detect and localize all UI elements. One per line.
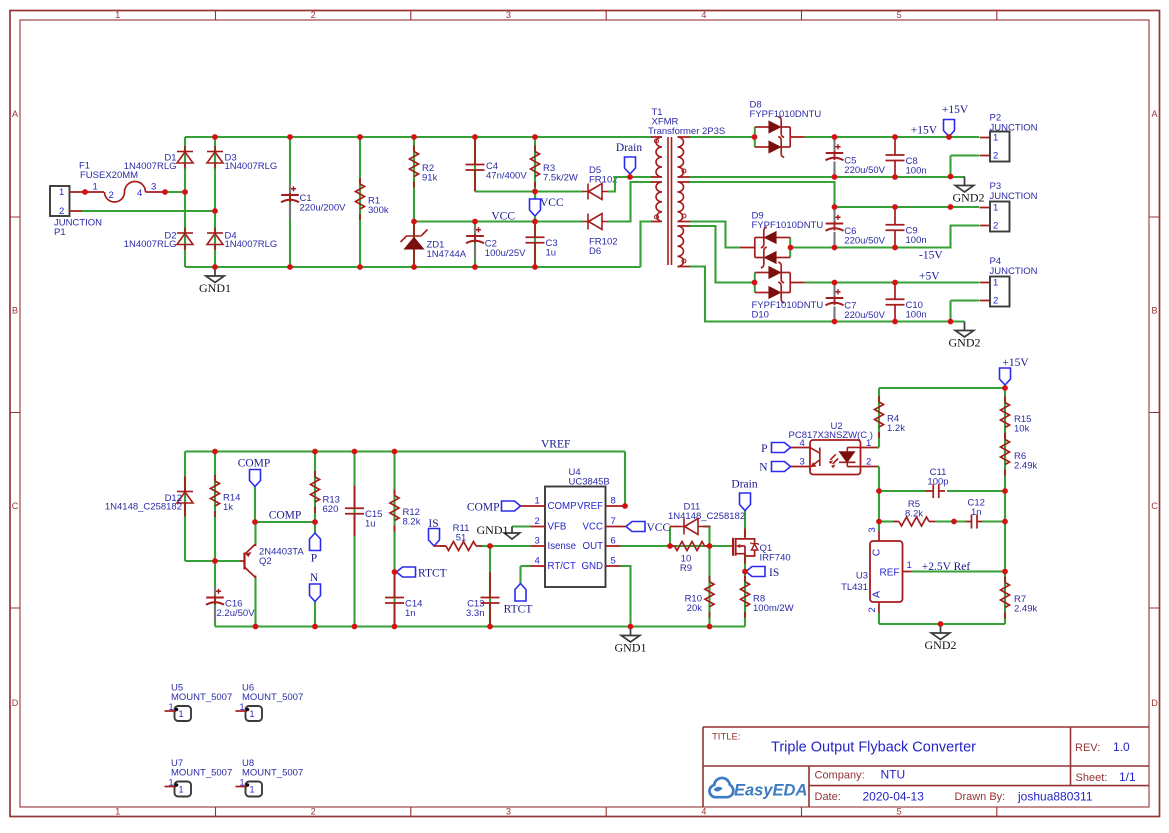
svg-text:JUNCTION: JUNCTION [990,266,1038,277]
svg-text:2.49k: 2.49k [1014,604,1037,615]
wire [489,546,491,627]
wire [185,450,625,452]
svg-text:2: 2 [993,221,998,232]
junction [212,449,218,455]
svg-text:1/1: 1/1 [1119,770,1136,784]
net flag Drain [616,142,642,177]
wire [877,446,879,448]
svg-text:1: 1 [866,438,871,449]
date row [815,790,1093,804]
svg-text:100n: 100n [906,165,927,176]
junction [532,134,538,140]
wire [314,452,316,523]
junction [1002,569,1008,575]
wire [877,465,879,467]
svg-text:10k: 10k [1014,424,1030,435]
wire [641,222,653,268]
svg-text:8.2k: 8.2k [905,509,923,520]
junction [707,543,713,549]
junction [892,204,898,210]
junction [948,204,954,210]
svg-text:R9: R9 [680,563,692,574]
svg-text:3: 3 [151,182,156,193]
sheet text [1076,770,1137,784]
svg-text:IS: IS [769,567,779,579]
svg-text:Company:: Company: [815,770,865,782]
svg-text:7.5k/2W: 7.5k/2W [543,173,578,184]
svg-text:GND2: GND2 [925,638,957,652]
junction [948,174,954,180]
svg-text:100n: 100n [906,310,927,321]
diode D4 [207,228,277,251]
junction [892,280,898,286]
svg-text:OUT: OUT [583,541,604,552]
svg-text:1: 1 [169,778,174,788]
svg-text:JUNCTION: JUNCTION [990,191,1038,202]
wire [534,137,536,267]
svg-text:GND2: GND2 [949,336,981,350]
wire [353,452,355,627]
junction [742,569,748,575]
net flag VCC at pin7 [626,522,670,535]
wire [289,137,291,267]
wire [948,135,950,138]
svg-text:2020-04-13: 2020-04-13 [863,790,925,804]
ground GND2 upper [955,177,974,193]
svg-text:C: C [871,548,883,556]
junction [532,264,538,270]
wire AC input and bridge nets [82,137,652,267]
resistor R7 [1001,577,1038,619]
diode D1 [124,146,193,172]
wire [621,545,731,547]
junction [472,219,478,225]
wire [791,226,980,248]
svg-text:RT/CT: RT/CT [548,561,576,572]
wire [951,154,980,156]
svg-text:GND2: GND2 [953,191,985,205]
svg-text:RTCT: RTCT [418,568,447,580]
wire [474,137,476,192]
net flag P [310,533,321,565]
capacitor C5 [826,137,886,177]
capacitor C3 [526,222,558,268]
wire [82,210,215,212]
diode D12 [105,477,193,517]
svg-text:2: 2 [311,10,316,20]
diode D11 [668,502,745,535]
net flag RTCT left [397,567,447,580]
svg-text:VCC: VCC [583,522,603,533]
svg-text:220u/200V: 220u/200V [300,203,347,214]
svg-text:D: D [12,698,19,708]
svg-text:B: B [12,305,18,315]
wire [214,137,216,267]
svg-text:D10: D10 [752,310,769,321]
wire [621,566,631,627]
net flag IS at Q1 source [746,567,779,580]
svg-text:1: 1 [179,785,184,795]
wire [1004,388,1006,624]
wire [629,174,631,177]
svg-text:1N4148_C258182: 1N4148_C258182 [105,502,182,513]
svg-text:4: 4 [800,438,805,449]
svg-text:1n: 1n [405,608,416,619]
resistor R14 [211,475,241,517]
junction [212,264,218,270]
junction [832,245,838,251]
dual diode D9 [740,211,823,268]
svg-text:GND: GND [581,561,603,572]
wire [879,490,925,492]
junction [212,558,218,564]
wire VREF rail and mid nets [185,452,745,627]
wire [519,566,521,584]
svg-text:Q2: Q2 [259,556,272,567]
resistor R4 [875,396,906,438]
svg-text:3: 3 [506,807,511,817]
title text [712,732,976,756]
junction [892,174,898,180]
junction [253,624,259,630]
connector P4 [980,256,1038,307]
wire [512,525,531,527]
svg-text:3.3n: 3.3n [466,608,485,619]
wire [879,387,1005,389]
svg-text:Drain: Drain [731,479,757,491]
wire [314,602,316,627]
junction [212,208,218,214]
junction [832,280,838,286]
svg-text:A: A [1151,109,1157,119]
svg-text:2: 2 [993,151,998,162]
connector P2 [980,113,1038,162]
svg-text:100m/2W: 100m/2W [753,603,794,614]
junction [357,264,363,270]
junction [1002,519,1008,525]
svg-text:2: 2 [109,190,114,201]
net flag VCC [530,197,564,222]
svg-text:+2.5V Ref: +2.5V Ref [922,561,971,573]
IC U3 TL431 [841,527,912,613]
svg-text:TL431: TL431 [841,582,868,593]
svg-text:620: 620 [323,504,339,515]
resistor R3 [531,146,578,188]
svg-text:2: 2 [311,807,316,817]
junction [948,319,954,325]
net flag COMP at pin1 [467,501,521,514]
transistor Q1 IRF740 [730,529,790,564]
capacitor C14 [385,572,422,627]
capacitor C4 [466,137,528,192]
rev text [1075,740,1130,754]
capacitor C11 [925,467,949,498]
wire [185,136,652,138]
svg-text:1: 1 [535,496,540,507]
wire [359,137,361,267]
wire [314,522,316,533]
wire [254,578,256,627]
wire [608,182,653,222]
svg-text:1N4007RLG: 1N4007RLG [124,161,177,172]
wire [708,546,710,627]
wire [474,222,476,268]
svg-text:2: 2 [867,607,878,612]
resistor R2 [410,146,438,188]
svg-text:3: 3 [800,457,805,468]
svg-text:220u/50V: 220u/50V [844,165,885,176]
capacitor C1 [281,183,346,219]
svg-text:100p: 100p [927,477,948,488]
IC U4 UC3845B [521,467,627,587]
svg-text:1N4007RLG: 1N4007RLG [225,239,278,250]
svg-text:1: 1 [993,278,998,289]
svg-text:8: 8 [611,496,616,507]
junction [357,134,363,140]
wire [805,136,980,138]
junction [162,189,168,195]
junction [411,264,417,270]
svg-text:Isense: Isense [548,541,577,552]
wire [185,560,240,562]
junction [892,319,898,325]
svg-text:1u: 1u [546,248,557,259]
capacitor C9 [886,207,927,248]
junctions right section [876,385,1008,627]
wire [214,452,216,562]
optocoupler U2 PC817 [789,421,878,475]
wire [255,521,315,523]
connector P1 [50,186,102,238]
capacitor C15 [345,486,382,536]
junction [252,519,258,525]
net flag Drain at Q1 [731,479,757,511]
capacitor C6 [826,207,886,248]
wire [475,190,583,192]
svg-text:Date:: Date: [815,791,841,803]
junction [938,621,944,627]
wire [935,520,967,522]
junction [892,245,898,251]
svg-text:5: 5 [611,556,616,567]
wire drain and VCC winding nets [608,177,653,267]
junction [182,189,188,195]
svg-text:2.2u/50V: 2.2u/50V [217,608,256,619]
svg-text:2: 2 [866,457,871,468]
junction [312,624,318,630]
wire [165,191,185,193]
wire [879,623,1005,625]
mounting hole U5 [165,683,233,722]
svg-text:Sheet:: Sheet: [1076,772,1108,784]
svg-text:Transformer 2P3S: Transformer 2P3S [648,126,725,137]
junction [876,488,882,494]
svg-text:Drawn By:: Drawn By: [955,791,1006,803]
wire [254,522,256,544]
resistor R15 [1001,397,1032,439]
svg-text:D: D [1151,698,1158,708]
junction [832,134,838,140]
wire [670,526,679,528]
junction [628,624,634,630]
svg-text:P: P [311,553,317,565]
mounting hole U6 [236,683,304,722]
svg-text:4: 4 [701,10,706,20]
EasyEDA logo [710,778,808,800]
junction [532,219,538,225]
svg-text:Drain: Drain [616,142,642,154]
title block frame [703,727,1149,807]
diode D3 [207,146,277,172]
svg-text:VFB: VFB [548,522,567,533]
wire [624,452,626,507]
svg-text:1: 1 [993,203,998,214]
svg-text:VCC: VCC [540,197,564,209]
svg-text:A: A [12,109,18,119]
junction [312,519,318,525]
junction [832,319,838,325]
wire feedback nets [877,388,1005,624]
wire [690,226,755,283]
wire [82,191,85,193]
svg-text:1: 1 [907,560,912,571]
junction [1002,488,1008,494]
svg-text:MOUNT_5007: MOUNT_5007 [242,692,303,703]
wire [949,156,951,177]
diode D6 [583,214,618,258]
svg-text:GND1: GND1 [477,523,509,537]
net flag N right [759,462,790,474]
wire HV bus columns [290,137,583,267]
svg-text:VCC: VCC [491,211,515,223]
junctions top section [82,134,953,324]
resistor R9 [669,542,711,575]
svg-text:joshua880311: joshua880311 [1017,790,1093,804]
junction [472,264,478,270]
svg-text:IRF740: IRF740 [760,553,791,564]
svg-text:C: C [1151,501,1158,511]
wire [835,206,980,208]
wire [608,177,653,192]
svg-text:51: 51 [456,533,467,544]
zener diode ZD1 [401,222,467,268]
svg-text:5: 5 [897,807,902,817]
junction [487,624,493,630]
svg-text:1u: 1u [365,519,376,530]
junction [946,134,952,140]
svg-text:1: 1 [115,807,120,817]
company row [815,768,906,782]
svg-text:47n/400V: 47n/400V [486,171,527,182]
svg-text:1: 1 [179,709,184,719]
junction [752,134,758,140]
junction [287,134,293,140]
svg-text:1.0: 1.0 [1113,740,1130,754]
junction [667,543,673,549]
junction [352,449,358,455]
junction [627,174,633,180]
net flag RTCT at pin4 [504,584,533,616]
svg-text:COMP: COMP [238,458,271,470]
svg-text:2.49k: 2.49k [1014,461,1037,472]
junction [832,174,838,180]
wire [184,137,186,267]
svg-text:C: C [12,501,19,511]
svg-text:3: 3 [535,536,540,547]
svg-text:P: P [761,443,767,455]
wire [534,216,536,222]
svg-text:COMP: COMP [548,501,577,512]
wire [982,520,1005,522]
wire [690,222,740,248]
svg-text:REV:: REV: [1075,742,1100,754]
junction [622,503,628,509]
svg-text:MOUNT_5007: MOUNT_5007 [171,692,232,703]
wire [951,299,980,301]
svg-text:7: 7 [611,516,616,527]
svg-text:1: 1 [240,702,245,712]
svg-text:MOUNT_5007: MOUNT_5007 [171,768,232,779]
svg-text:1: 1 [250,785,255,795]
junction [472,134,478,140]
wire [184,452,186,562]
wire [690,136,755,138]
resistor R8 [741,576,794,618]
net flag +15V [942,104,969,137]
ground GND2 right [931,624,950,640]
junction [951,519,957,525]
transformer T1 [648,107,725,267]
wire [490,545,531,547]
capacitor C10 [886,282,927,322]
svg-text:5: 5 [897,10,902,20]
junction [892,134,898,140]
wire [414,220,583,222]
svg-text:2: 2 [993,296,998,307]
capacitor C2 [466,226,526,260]
wire [878,388,880,448]
mounting hole U7 [165,758,233,797]
junction [82,189,88,195]
dual diode D8 [750,100,822,158]
capacitor C16 [206,587,255,621]
svg-text:+15V: +15V [942,104,969,116]
wire [521,565,531,567]
resistor R6 [1001,434,1038,476]
junction [752,280,758,286]
ground GND1 under U4 [621,627,640,643]
wire [254,487,256,522]
svg-text:3: 3 [506,10,511,20]
svg-text:2: 2 [535,516,540,527]
svg-text:MOUNT_5007: MOUNT_5007 [242,768,303,779]
net flag P right [761,443,790,456]
ground GND2 lower [955,322,974,338]
svg-text:4: 4 [701,807,706,817]
wire [878,613,880,624]
svg-text:1n: 1n [971,507,982,518]
svg-text:COMP: COMP [269,510,302,522]
junction [788,245,794,251]
svg-text:FYPF1010DNTU: FYPF1010DNTU [752,220,824,231]
junction [1002,385,1008,391]
dual diode D10 [752,262,824,320]
svg-text:VCC: VCC [647,522,671,534]
junction [392,569,398,575]
wire [413,137,415,267]
junction [411,134,417,140]
svg-text:VREF: VREF [541,439,570,451]
